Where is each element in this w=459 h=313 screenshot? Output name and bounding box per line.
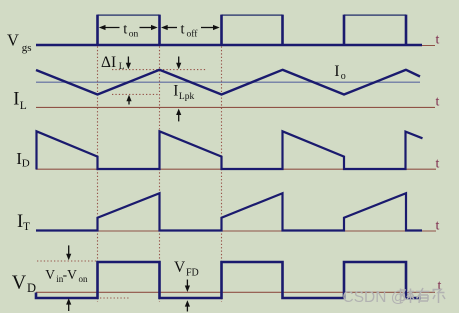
waveform IT: [36, 193, 422, 230]
svg-text:V: V: [7, 30, 19, 49]
svg-text:CSDN @: CSDN @: [343, 289, 407, 306]
svg-text:I: I: [13, 89, 19, 109]
Io average level line: [36, 81, 420, 83]
svg-text:L: L: [20, 100, 27, 112]
arrow ILpk down at peak: [178, 57, 180, 65]
waveform ID: [37, 131, 423, 169]
arrow VFD up: [186, 305, 188, 312]
svg-text:t: t: [123, 22, 127, 38]
arrow delta IL up at valley: [128, 99, 130, 105]
arrow VFD down: [186, 280, 188, 288]
svg-text:o: o: [341, 71, 346, 82]
svg-text:gs: gs: [22, 42, 32, 54]
svg-text:V: V: [45, 267, 55, 282]
watermark glyph chen: [401, 289, 415, 304]
dotted guide vertical at toff end: [221, 47, 223, 303]
arrow Vin-Von up: [68, 303, 70, 312]
watermark glyph le: [433, 290, 446, 304]
svg-text:D: D: [27, 281, 36, 295]
svg-text:t: t: [436, 219, 440, 234]
svg-text:D: D: [22, 158, 30, 170]
dotted VD high level line: [37, 260, 96, 262]
dotted guide vertical at t=ton start: [97, 47, 99, 303]
axis VD row: [36, 291, 435, 293]
arrow Vin-Von down: [68, 245, 70, 255]
arrow toff right: [201, 27, 216, 29]
arrow ton right: [140, 27, 154, 29]
arrow ILpk up below axis: [178, 113, 180, 121]
svg-text:t: t: [436, 157, 440, 172]
axis IT row: [36, 230, 436, 232]
waveform Vgs: [36, 15, 422, 45]
svg-text:V: V: [174, 259, 186, 276]
watermark glyph you: [416, 288, 430, 303]
arrow delta IL down at peak left: [127, 57, 129, 65]
svg-text:V: V: [12, 272, 27, 294]
svg-text:t: t: [436, 95, 440, 110]
svg-text:Lpk: Lpk: [179, 92, 195, 102]
svg-text:ΔI: ΔI: [101, 54, 116, 71]
axis Vgs row: [36, 45, 435, 47]
svg-text:t: t: [181, 22, 185, 38]
axis IL row: [36, 106, 435, 108]
dotted IL valley level line: [112, 93, 158, 95]
svg-text:T: T: [23, 221, 30, 233]
arrow toff left: [165, 27, 177, 29]
svg-text:-V: -V: [63, 267, 77, 282]
dotted guide vertical at ton end: [159, 47, 161, 303]
svg-text:t: t: [436, 33, 440, 48]
arrow ton left: [103, 27, 120, 29]
waveform VD: [36, 262, 421, 298]
svg-text:on: on: [129, 29, 139, 39]
waveform IL triangle: [36, 70, 420, 95]
svg-text:I: I: [173, 82, 178, 99]
svg-text:on: on: [79, 274, 89, 284]
dotted IL peak level line: [112, 69, 207, 71]
svg-text:I: I: [334, 63, 339, 80]
waveform Vgs pulse tops: [98, 14, 407, 16]
dotted VD low level line: [100, 297, 129, 299]
svg-text:off: off: [187, 28, 199, 39]
svg-text:L: L: [119, 62, 125, 72]
svg-text:FD: FD: [186, 267, 199, 278]
axis ID row: [36, 168, 436, 170]
